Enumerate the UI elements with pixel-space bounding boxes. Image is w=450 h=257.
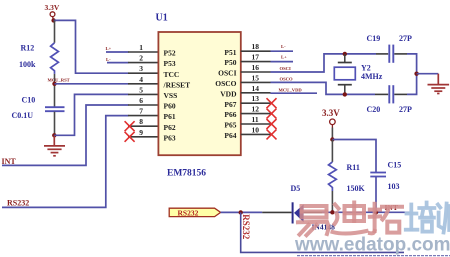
svg-text:P62: P62 [164,123,176,132]
svg-text:27P: 27P [399,105,412,114]
svg-text:L+: L+ [281,55,287,60]
svg-text:7: 7 [139,107,143,116]
svg-text:R12: R12 [21,44,35,53]
wire [54,20,129,73]
ground right [428,74,450,94]
op IC U1 pins left [128,52,158,137]
svg-text:C10: C10 [22,95,36,104]
svg-text:MCU_RST: MCU_RST [48,78,70,83]
diode D5 [262,184,335,231]
node ground junction [52,133,56,137]
svg-text:5: 5 [139,85,143,94]
node 3.3V junction [51,18,55,22]
svg-text:C0.1U: C0.1U [12,111,34,120]
wire [331,128,333,140]
svg-text:P53: P53 [164,59,176,68]
wire [271,92,318,94]
svg-text:9: 9 [139,128,143,137]
wire flag to junction [221,211,263,213]
port RS232 flag [169,208,220,217]
svg-text:3: 3 [139,64,143,73]
pin names left column [163,49,191,143]
svg-text:R11: R11 [347,163,360,172]
IC pins right [241,51,271,134]
svg-text:4MHz: 4MHz [361,72,383,81]
svg-text:VDD: VDD [220,89,237,98]
svg-text:C20: C20 [367,105,381,114]
svg-text:6: 6 [139,96,143,105]
svg-text:1: 1 [139,43,143,52]
pin numbers right [252,42,260,134]
svg-text:12: 12 [252,105,260,114]
wire [54,112,56,136]
svg-text:www.edatop.com: www.edatop.com [294,235,450,256]
svg-text:OSCI: OSCI [218,69,236,78]
svg-text:EM78156: EM78156 [167,168,206,178]
svg-text:P51: P51 [224,48,236,57]
wire [107,62,129,64]
svg-text:4: 4 [139,75,143,84]
wire diode to INT node [322,211,411,213]
svg-text:3.3V: 3.3V [45,3,60,12]
svg-text:14: 14 [252,84,260,93]
svg-text:C19: C19 [367,34,381,43]
svg-text:17: 17 [252,53,260,62]
svg-text:18: 18 [252,42,260,51]
svg-text:L+: L+ [106,46,112,51]
wire INT [2,105,129,165]
char xun [438,203,450,236]
svg-text:11: 11 [252,115,259,124]
pin names right column [215,48,237,140]
svg-text:16: 16 [252,63,260,72]
svg-text:27P: 27P [399,34,412,43]
wire VSS to ground [54,94,128,135]
node crystal ground junction [414,72,418,76]
svg-text:15: 15 [252,73,260,82]
wire [271,50,294,52]
wire to ground [417,73,439,75]
crystal Y2 [334,52,382,97]
svg-text:D5: D5 [291,184,301,193]
resistor R11 [329,140,366,213]
watermark chinese chars [298,203,450,236]
svg-text:P67: P67 [224,100,236,109]
wire [106,51,129,53]
op IC U1 body EM78156 [156,12,241,178]
no-connect X pin9 [125,132,135,142]
wire C19 right [407,54,417,95]
svg-text:U1: U1 [156,12,168,23]
svg-text:C15: C15 [388,161,402,170]
svg-text:OSCI: OSCI [280,66,291,71]
node R11 bottom junction [330,210,334,214]
node C15 bottom junction [374,210,378,214]
char pei [406,203,435,232]
svg-text:103: 103 [388,182,400,191]
svg-text:P61: P61 [164,112,176,121]
svg-text:P52: P52 [164,49,176,58]
char di [333,203,367,234]
wire to C15 [332,140,376,173]
node RS232 junction [239,210,243,214]
svg-text:P66: P66 [224,110,236,119]
wire [54,74,56,107]
resistor R12 [19,43,58,74]
svg-text:L-: L- [281,44,286,49]
svg-text:2: 2 [139,54,143,63]
svg-text:OSCO: OSCO [215,79,236,88]
wire OSCI to crystal top [271,54,377,72]
wire OSCO to crystal bottom [271,82,376,94]
capacitor C15 [370,161,401,213]
wire RS232 [2,116,129,208]
no-connect X pin11 [267,119,277,129]
svg-text:L-: L- [106,57,111,62]
svg-text:P60: P60 [164,102,176,111]
svg-text:RS232: RS232 [178,209,199,218]
svg-text:P64: P64 [224,131,236,140]
no-connect X pin12 [267,109,277,119]
capacitor C19 [367,34,413,63]
svg-text:RS232: RS232 [241,214,251,240]
no-connect X pin13 [267,98,277,108]
svg-text:TCC: TCC [164,70,180,79]
wire down and right [241,212,404,252]
capacitor C10 [12,95,65,120]
svg-text:8: 8 [139,117,143,126]
capacitor C20 [367,85,413,114]
svg-text:VSS: VSS [164,91,178,100]
no-connect X pin10 [267,129,277,139]
wire [271,61,294,63]
svg-text:3.3V: 3.3V [322,108,340,118]
svg-text:OSCO: OSCO [280,76,293,81]
svg-text:P65: P65 [224,121,236,130]
wire [54,20,56,42]
pin numbers left [139,43,143,137]
node R11 top junction [330,137,334,141]
wire pin4 net [55,83,129,85]
svg-text:P50: P50 [224,58,236,67]
svg-text:INT: INT [2,157,17,166]
power 3.3V right [322,108,340,127]
svg-text:/RESET: /RESET [163,80,191,89]
no-connect X pin8 [125,121,135,131]
svg-text:P63: P63 [164,133,176,142]
svg-text:150K: 150K [347,184,366,193]
svg-text:13: 13 [252,94,260,103]
watermark underline [297,255,450,257]
power 3.3V top-left [45,3,60,21]
ground [44,135,65,156]
char tuo [370,204,402,234]
svg-text:10: 10 [252,125,260,134]
svg-text:100k: 100k [19,60,36,69]
char yi [298,206,328,235]
svg-text:MCU_VDD: MCU_VDD [279,87,303,92]
svg-text:RS232: RS232 [7,198,29,207]
node MCU_RST [48,78,70,86]
